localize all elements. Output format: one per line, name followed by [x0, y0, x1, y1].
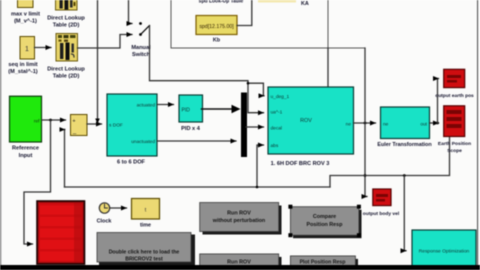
svg-text:Response Optimization: Response Optimization	[419, 249, 470, 255]
svg-text:_: _	[72, 129, 77, 135]
svg-text:s DOF: s DOF	[109, 123, 123, 129]
block: sum	[71, 115, 88, 136]
wire: from subsystem box down to ROV top	[327, 48, 329, 86]
svg-text:Run ROV: Run ROV	[227, 260, 251, 266]
block: Euler Transformation	[377, 107, 431, 148]
wire: branch to ROV input 1	[248, 83, 264, 96]
block: velocity limit gain (cut off at top)	[11, 0, 40, 25]
svg-text:output body vel: output body vel	[363, 211, 400, 217]
manual switch SW1	[131, 22, 151, 58]
svg-text:Run ROV: Run ROV	[227, 211, 251, 217]
frame edge left	[0, 0, 1, 270]
svg-text:spd[12.175.00]: spd[12.175.00]	[199, 24, 234, 30]
wire: ref branch down to red scope	[24, 120, 51, 244]
svg-text:BRICROV2 test: BRICROV2 test	[125, 257, 163, 263]
button: Run ROV (second, cut off)	[200, 254, 282, 266]
svg-text:Earth Position: Earth Position	[438, 141, 471, 147]
svg-text:spd Look-Up Table: spd Look-Up Table	[199, 0, 244, 5]
svg-text:(M_v^-1): (M_v^-1)	[14, 19, 37, 25]
svg-text:ua^-1: ua^-1	[271, 110, 283, 116]
wire: lookup table 2 to manual switch input 2	[78, 35, 133, 49]
block: Reference Input source	[10, 96, 42, 159]
svg-text:Switch: Switch	[132, 52, 151, 58]
svg-text:Compare: Compare	[313, 214, 336, 220]
block: constant 1 (torque limit)	[8, 37, 38, 76]
wire: mux to ROV input 3	[246, 126, 264, 128]
svg-text:KA: KA	[301, 1, 309, 7]
svg-text:ROV: ROV	[300, 118, 312, 124]
svg-text:PID: PID	[182, 108, 191, 114]
svg-text:Table (2D): Table (2D)	[53, 74, 80, 80]
svg-text:ne: ne	[383, 123, 389, 128]
wire: Kb output up to cut-off block	[237, 0, 252, 26]
block: ROV	[268, 87, 354, 167]
block: Response Optimization	[412, 230, 476, 266]
svg-text:out: out	[420, 122, 427, 128]
block: gain Kb	[196, 16, 237, 44]
button: Run ROV without perturbation	[200, 203, 282, 235]
block: 6 to 6 DOF	[107, 94, 157, 166]
svg-text:1. 6H DOF BRC ROV 3: 1. 6H DOF BRC ROV 3	[271, 161, 330, 167]
subsystem boundary box KA (cut off at top)	[171, 0, 365, 48]
svg-text:unactuated: unactuated	[131, 139, 155, 145]
block: Clock	[97, 203, 112, 225]
wire: reference output to sum	[42, 119, 66, 121]
letterbox bar bottom	[0, 265, 480, 270]
svg-text:max v limit: max v limit	[11, 12, 40, 18]
wire: actuated to PID	[157, 104, 174, 106]
block: cut-off block above Kb wire	[258, 0, 296, 3]
svg-text:PID x 4: PID x 4	[181, 126, 201, 132]
block: Direct Lookup Table (2D) #2	[47, 34, 85, 80]
svg-text:Position Resp: Position Resp	[307, 222, 344, 228]
wire: feedback into sum minus input	[64, 130, 66, 188]
svg-text:ref: ref	[34, 119, 40, 125]
svg-text:ne: ne	[346, 123, 352, 128]
svg-text:(M_stal^-1): (M_stal^-1)	[8, 69, 38, 75]
block: output body vel (to workspace)	[363, 189, 400, 217]
block: Earth Position Scope	[438, 106, 471, 154]
block: Double click banner	[97, 233, 195, 266]
svg-text:Kb: Kb	[213, 38, 221, 44]
svg-text:Table (2D): Table (2D)	[53, 23, 80, 29]
svg-text:Scope: Scope	[447, 148, 462, 154]
mux bar	[241, 93, 247, 158]
wire: vertical from top at x=97.5 into sum output line	[97, 0, 99, 122]
wire: ROV output ne to Euler Transformation	[354, 122, 376, 124]
block: PID x 4	[179, 95, 203, 132]
wire: ne branch from box bottom down to output body vel	[365, 48, 367, 197]
wire: sum output to 6-to-6 DOF	[87, 123, 102, 125]
svg-text:u_deg_1: u_deg_1	[271, 94, 290, 100]
wire: feedback up into ROV input 4	[257, 145, 264, 187]
svg-text:actuated: actuated	[137, 103, 156, 109]
svg-text:Reference: Reference	[12, 146, 39, 152]
button: Plot Position Resp (cut off)	[290, 256, 358, 266]
svg-text:Clock: Clock	[97, 219, 112, 225]
svg-text:Euler Transformation: Euler Transformation	[377, 142, 431, 148]
wire: constant 1 to lookup table 2	[35, 47, 52, 49]
svg-text:Double click here to load the: Double click here to load the	[109, 250, 180, 256]
wire: lower distribution line	[330, 123, 450, 187]
svg-text:Plot Position Resp: Plot Position Resp	[300, 260, 346, 266]
svg-text:Direct Lookup: Direct Lookup	[47, 67, 85, 73]
svg-text:1: 1	[25, 46, 29, 53]
block: red multi-plot scope	[37, 201, 85, 264]
svg-text:Input: Input	[19, 153, 33, 159]
svg-text:without perturbation: without perturbation	[212, 218, 265, 224]
block: Direct Lookup Table (2D) #1 (cut off at top)	[47, 0, 85, 29]
block: time (to workspace)	[132, 199, 160, 229]
svg-text:output earth pos: output earth pos	[435, 93, 474, 99]
wire: vertical from top into manual switch input 1	[129, 0, 133, 24]
button: Compare Position Resp (selected)	[288, 205, 361, 239]
svg-text:abs: abs	[271, 143, 279, 149]
svg-text:time: time	[140, 223, 151, 229]
svg-text:Manual: Manual	[131, 45, 151, 51]
wire: branch up to output earth pos	[438, 79, 439, 124]
wire: clock to time	[110, 207, 127, 209]
wire: Euler out to Earth Position Scope	[430, 122, 439, 124]
node: ref junction	[49, 119, 52, 122]
wire: PID output (wide) to mux	[202, 108, 234, 110]
wire: manual switch output down and right to ROV inputs 1 and 2	[150, 26, 264, 113]
wire: feedback main horizontal	[65, 186, 331, 188]
block: output earth pos (to workspace)	[435, 69, 474, 99]
svg-text:6 to 6 DOF: 6 to 6 DOF	[117, 160, 146, 166]
svg-text:Direct Lookup: Direct Lookup	[47, 16, 85, 22]
svg-text:decal: decal	[271, 126, 282, 132]
frame edge right	[477, 0, 478, 270]
wire: unactuated to mux	[157, 140, 236, 142]
wire: branch down to Response Optimization	[404, 176, 406, 251]
svg-text:+: +	[72, 119, 75, 125]
svg-text:seq in limit: seq in limit	[8, 62, 37, 68]
